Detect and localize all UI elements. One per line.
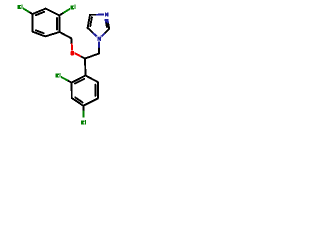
atom label Cl (Cl1)	[17, 4, 23, 10]
ring B edge BR-B	[83, 99, 98, 106]
imidazole inner double line N3=C2 carbon half	[105, 23, 108, 27]
white gap above Cl4 label	[81, 117, 86, 119]
imidazole inner double line C4=C5	[90, 17, 92, 26]
ring A edge B-BL	[33, 32, 46, 37]
bond CH-CH2	[85, 54, 99, 59]
ring B edge B-BL	[72, 98, 84, 106]
ring B edge BL-TL	[71, 83, 73, 98]
ring B inner double line TR-BR	[94, 85, 96, 96]
ring A edge C2a-C3a	[33, 9, 46, 14]
bond C-Cl1	[28, 12, 32, 14]
ring A inner double line B-BL	[36, 30, 44, 33]
bond C-Cl2	[59, 13, 64, 16]
bond ring A - benzylic CH2	[60, 32, 72, 38]
atom label N (N1)	[97, 36, 102, 41]
atom label N (N3)	[104, 12, 109, 17]
bond CH2-N1	[98, 47, 100, 54]
ring A edge TR-BR	[58, 15, 60, 32]
ring B inner double line B-BL	[75, 97, 82, 102]
bond O-CH ether	[80, 56, 85, 59]
bond C-Cl4	[82, 106, 84, 111]
imidazole bond C2-N1	[104, 29, 109, 34]
atom label Cl (Cl2)	[70, 4, 76, 10]
ring A edge BR-B	[45, 32, 59, 36]
atom label Cl (Cl4)	[80, 119, 86, 125]
imidazole bond C5-N1	[88, 28, 94, 33]
ring B edge TR-BR	[97, 82, 99, 99]
bond CH2-O ether	[70, 38, 72, 44]
imidazole bond C4=C5	[88, 15, 90, 28]
white gap below N3 label	[104, 17, 109, 19]
atom label Cl (Cl3)	[55, 72, 61, 78]
ring A edge T-TR	[46, 9, 60, 16]
imidazole bond N3=C2 nitrogen half	[107, 15, 109, 24]
imidazole bond N3=C2 carbon half	[107, 24, 110, 29]
imidazole bond C4-N3	[90, 14, 97, 16]
imidazole inner double line N3=C2 nitrogen half	[104, 19, 107, 23]
bond C-Cl3	[67, 80, 71, 82]
ring B edge TL-T	[72, 76, 86, 83]
ring A inner double line TL-T	[36, 12, 44, 15]
atom label O (O)	[70, 50, 75, 56]
ring A inner double line TR-BR	[56, 18, 58, 29]
ring A edge BL-TL	[32, 14, 34, 32]
ring B inner double line TL-T	[75, 79, 84, 84]
bond CH - ring B	[84, 59, 87, 76]
ring B edge T-TR	[86, 76, 98, 83]
